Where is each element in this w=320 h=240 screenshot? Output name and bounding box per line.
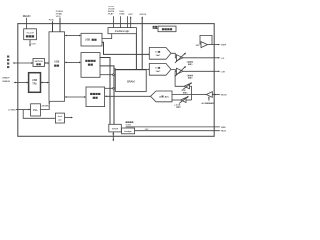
wire to DAC2	[114, 68, 150, 70]
svg-text:): )	[192, 78, 193, 80]
clock gen box	[55, 113, 64, 123]
svg-text:S/PDIF: S/PDIF	[112, 128, 119, 130]
svg-text:REGIN: REGIN	[23, 15, 31, 18]
svg-text:EEPROM: EEPROM	[35, 61, 43, 63]
pin LOL	[214, 57, 219, 59]
wire power pin 2	[59, 18, 61, 32]
wire 12MHz tap to clock gen	[23, 110, 55, 119]
svg-text:DAC: DAC	[156, 70, 161, 73]
bandgap label	[126, 121, 128, 123]
switch S2	[181, 98, 186, 103]
svg-text:PLL: PLL	[33, 109, 38, 112]
svg-text:48 MHz: 48 MHz	[42, 105, 50, 107]
wire interface pin 3	[127, 16, 129, 27]
bandgap box	[122, 128, 135, 134]
wire GPO pin	[130, 18, 132, 28]
wire VGA2 out	[183, 70, 214, 72]
wire USB interface to USB controller double arrow	[66, 35, 81, 37]
SPDIF box	[109, 124, 122, 132]
svg-text:PLAY: PLAY	[108, 13, 114, 16]
svg-text:GPC: GPC	[128, 14, 133, 16]
wire REGIN	[26, 18, 28, 29]
svg-text:USBDM: USBDM	[2, 81, 10, 83]
wire ADC to record	[106, 95, 151, 97]
wire interface logic to SRAM	[135, 34, 137, 70]
wire DAC2 to VGA2	[171, 69, 176, 71]
pin MICIN	[214, 94, 220, 96]
svg-text:): )	[192, 64, 193, 66]
amplifier VGA2	[176, 68, 183, 74]
wire VGA1 out	[183, 57, 214, 59]
wire sidetone from DAC2 node	[175, 71, 184, 86]
node external EEPROM vertical label	[7, 56, 9, 58]
wire mic join	[191, 86, 193, 100]
svg-text:TRx: TRx	[32, 83, 37, 86]
svg-text:USBDP: USBDP	[2, 78, 10, 80]
svg-text:clock: clock	[58, 116, 62, 118]
wire DAC1 to VGA1	[171, 53, 176, 58]
svg-text:MICIN: MICIN	[221, 95, 227, 97]
svg-text:GPIO4: GPIO4	[140, 14, 147, 16]
USB controller box	[81, 33, 102, 46]
op-amp VREF	[201, 42, 208, 48]
svg-text:USB: USB	[54, 61, 59, 64]
wire bandgap out 2	[135, 130, 220, 132]
svg-text:PDN: PDN	[49, 20, 54, 22]
wire VREF feedback	[200, 35, 212, 44]
regulator box	[24, 29, 37, 40]
wire SPDIF out	[112, 132, 114, 141]
chip boundary	[18, 24, 214, 137]
svg-text:USB: USB	[32, 79, 37, 82]
svg-text:DAC: DAC	[156, 54, 161, 57]
wire PLL out	[41, 103, 50, 110]
wire playback to SPDIF 2	[100, 66, 114, 124]
DAC1	[149, 48, 171, 60]
svg-text:REF: REF	[196, 45, 200, 47]
svg-text:USB: USB	[85, 39, 90, 42]
wire interface pin 1	[113, 16, 115, 27]
DAC2	[149, 64, 171, 76]
wire bandgap out 1	[126, 126, 220, 128]
wire USB TRx left double arrow	[15, 82, 28, 84]
svg-text:(3.3V): (3.3V)	[126, 125, 132, 127]
op-amp mic	[206, 92, 212, 98]
wire record to SRAM	[105, 87, 116, 89]
wire ADC input 1	[172, 94, 192, 96]
wire interface pin 2	[120, 16, 122, 27]
wire playback to SRAM	[100, 74, 115, 76]
svg-text:): )	[180, 107, 181, 109]
record input processing box	[86, 87, 105, 107]
playback output processing box	[81, 53, 100, 78]
wire interface logic to USB controller	[102, 34, 112, 39]
wire power pin 1	[52, 21, 54, 32]
ADC	[151, 91, 173, 102]
wire USB TRx right double arrow	[42, 82, 49, 84]
svg-text:12 MHz: 12 MHz	[8, 110, 16, 112]
svg-text:VREF: VREF	[221, 45, 227, 47]
wire EEPROM right double arrow	[45, 62, 48, 64]
svg-text:(: (	[187, 75, 188, 77]
svg-text:USM: USM	[120, 14, 125, 16]
USB TRx box	[29, 73, 41, 93]
wire AGC arrow	[208, 98, 210, 101]
svg-text:SRAM: SRAM	[127, 79, 136, 83]
switch S1 sidetone	[184, 84, 190, 89]
wire 12MHz in	[16, 109, 30, 111]
svg-text:Interface logic: Interface logic	[115, 30, 130, 33]
svg-text:VBUS: VBUS	[221, 131, 227, 133]
USB interface box	[49, 32, 65, 102]
wire GPIO pin	[141, 18, 143, 70]
wire USB controller to DAC1	[102, 42, 150, 54]
amplifier VGA1	[176, 55, 183, 61]
wire 3.3V out	[29, 40, 31, 46]
svg-text:VREF: VREF	[221, 127, 227, 129]
wire EEPROM left double arrow	[14, 62, 33, 64]
svg-text:5V-3.3V: 5V-3.3V	[27, 33, 35, 35]
pin LOR	[214, 70, 219, 72]
interface logic box	[108, 28, 136, 34]
wire playback to SPDIF 1	[100, 58, 110, 125]
label DC	[153, 26, 155, 28]
wire USB interface to playback double arrow	[66, 61, 81, 63]
svg-text:LOL: LOL	[221, 58, 226, 60]
SRAM box	[116, 71, 147, 93]
svg-text:ADC: ADC	[165, 95, 170, 98]
svg-text:(: (	[187, 62, 188, 64]
svg-text:gen: gen	[58, 120, 61, 122]
svg-text:bandgap: bandgap	[124, 131, 131, 133]
PLL box	[31, 104, 41, 116]
EEPROM interface box	[33, 59, 45, 67]
svg-text:LOR: LOR	[221, 71, 226, 73]
pin VREF	[214, 44, 219, 46]
svg-text:3.3V: 3.3V	[31, 43, 36, 45]
power-on reset box	[158, 26, 176, 32]
svg-text:(0 dB: (0 dB	[181, 90, 186, 92]
wire clock out arrow	[65, 117, 72, 119]
wire USB interface to record double arrow	[66, 96, 86, 98]
